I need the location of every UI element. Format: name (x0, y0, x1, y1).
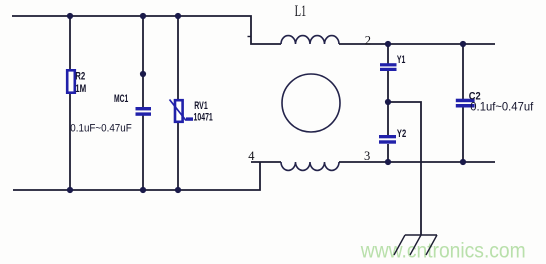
svg-text:Y2: Y2 (397, 127, 406, 140)
svg-text:R2: R2 (75, 70, 85, 83)
svg-text:MC1: MC1 (114, 93, 128, 105)
svg-text:4: 4 (248, 149, 255, 163)
svg-text:1M: 1M (75, 83, 86, 96)
svg-text:10471: 10471 (194, 111, 213, 123)
svg-text:0.1uF~0.47uF: 0.1uF~0.47uF (70, 122, 132, 135)
svg-text:Y1: Y1 (397, 54, 405, 66)
svg-text:L1: L1 (295, 2, 307, 20)
svg-text:www.cntronics.com: www.cntronics.com (360, 239, 526, 262)
svg-text:2: 2 (365, 33, 371, 47)
svg-text:RV1: RV1 (194, 100, 207, 112)
svg-text:3: 3 (364, 149, 370, 163)
svg-text:0.1uf~0.47uf: 0.1uf~0.47uf (470, 101, 534, 113)
